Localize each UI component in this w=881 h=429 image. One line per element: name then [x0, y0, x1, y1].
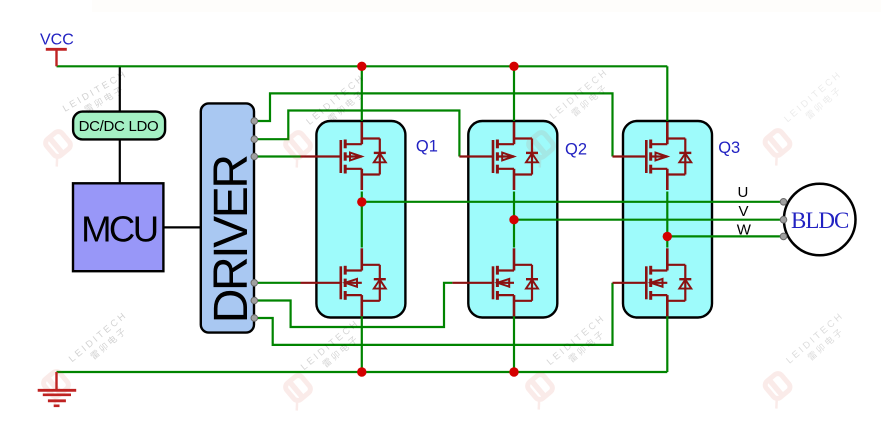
- pin motor V: [780, 216, 787, 223]
- pin DRIVER 6: [251, 315, 258, 322]
- svg-text:W: W: [737, 222, 752, 239]
- wire driver pin6 to Q3 bottom gate: [257, 283, 613, 345]
- wire phase U to motor: [362, 201, 784, 203]
- wire Q3 phase node vertical: [666, 192, 668, 248]
- half-bridge box Q1: [316, 121, 405, 318]
- watermark text 8: [784, 310, 854, 375]
- pin DRIVER 3: [251, 153, 258, 160]
- transistor Q1 low-side NMOS: [341, 248, 386, 316]
- wire Q3 drain from bus: [666, 66, 668, 121]
- junction ground bus Q1: [357, 367, 366, 376]
- watermark logo 8: [759, 372, 796, 409]
- wire Q1 source to ground bus: [361, 315, 363, 373]
- wire phase W to motor: [667, 235, 783, 237]
- watermark logo 2: [279, 131, 316, 168]
- gate stub Q3 top: [613, 155, 647, 157]
- junction node U: [357, 197, 366, 206]
- junction node W: [663, 232, 672, 241]
- wire MCU to DRIVER: [163, 226, 200, 228]
- block MCU: [73, 183, 163, 271]
- watermark text 2: [304, 72, 374, 136]
- transistor Q2 low-side NMOS: [493, 248, 538, 316]
- svg-text:DC/DC LDO: DC/DC LDO: [79, 118, 159, 135]
- watermark text 5: [67, 309, 137, 373]
- wire ground bottom bus: [57, 371, 668, 373]
- pin motor W: [780, 233, 787, 240]
- wire Q1 phase node vertical: [361, 192, 363, 248]
- watermark logo 5: [37, 370, 74, 407]
- pin DRIVER 5: [251, 297, 258, 304]
- wire phase V to motor: [514, 219, 784, 221]
- svg-text:Q1: Q1: [416, 138, 438, 156]
- svg-text:Q2: Q2: [565, 141, 587, 159]
- transistor Q3 low-side NMOS: [646, 248, 691, 316]
- pin motor U: [780, 199, 787, 206]
- svg-text:Q3: Q3: [718, 139, 740, 157]
- svg-text:MCU: MCU: [81, 209, 157, 250]
- half-bridge box Q2: [468, 121, 557, 318]
- junction ground bus Q2: [509, 367, 518, 376]
- watermark logo 6: [279, 374, 316, 411]
- faint banner remnant top edge: [92, 0, 881, 12]
- ground: [38, 372, 76, 406]
- watermark text 6: [299, 317, 369, 381]
- gate stub Q1 bottom: [301, 282, 341, 284]
- watermark text 4: [782, 69, 852, 134]
- wire Q2 drain from bus: [513, 66, 515, 121]
- transistor Q1 high-side NMOS: [341, 122, 386, 190]
- wire driver pin2 to Q2 top gate: [257, 111, 459, 157]
- svg-text:U: U: [738, 184, 749, 201]
- svg-text:DRIVER: DRIVER: [205, 156, 258, 324]
- block DC/DC LDO: [73, 112, 165, 140]
- watermark logo 7: [521, 373, 558, 410]
- gate stub Q1 top: [301, 155, 341, 157]
- watermark text 1: [61, 69, 135, 125]
- motor BLDC: [784, 184, 856, 256]
- watermark logo 3: [522, 131, 559, 168]
- transistor Q2 high-side NMOS: [493, 122, 538, 190]
- wire Q2 source to ground bus: [513, 315, 515, 373]
- wire Q2 phase node vertical: [513, 192, 515, 248]
- wire DC/DC LDO to MCU: [119, 139, 121, 183]
- power symbol VCC: [46, 49, 67, 66]
- watermark logo 4: [759, 129, 796, 166]
- pin DRIVER 1: [251, 118, 258, 125]
- svg-text:V: V: [739, 203, 749, 220]
- block DRIVER: [201, 103, 258, 332]
- wire driver pin5 to Q2 bottom gate: [257, 283, 452, 327]
- wire VCC bus to DC/DC LDO: [119, 66, 121, 111]
- wire driver pin3 to Q1 top gate: [257, 155, 301, 157]
- watermark logo 1: [39, 130, 76, 167]
- wire Q1 drain from bus: [361, 66, 363, 121]
- wire driver pin1 to Q3 top gate: [257, 93, 613, 156]
- junction top bus Q2: [509, 62, 518, 71]
- junction top bus Q1: [357, 62, 366, 71]
- watermark text 3: [548, 66, 618, 130]
- gate stub Q2 top: [459, 155, 493, 157]
- wire VCC top bus: [57, 65, 668, 67]
- svg-text:VCC: VCC: [40, 32, 74, 49]
- pin DRIVER 2: [251, 136, 258, 143]
- wire Q3 source to ground bus: [666, 315, 668, 373]
- transistor Q3 high-side NMOS: [646, 122, 691, 190]
- gate stub Q2 bottom: [452, 282, 493, 284]
- half-bridge box Q3: [623, 121, 712, 318]
- pin DRIVER 4: [251, 280, 258, 287]
- wire driver pin4 to Q1 bottom gate: [257, 282, 301, 284]
- gate stub Q3 bottom: [613, 282, 647, 284]
- watermark text 7: [545, 312, 615, 376]
- junction node V: [509, 215, 518, 224]
- svg-text:BLDC: BLDC: [791, 208, 849, 233]
